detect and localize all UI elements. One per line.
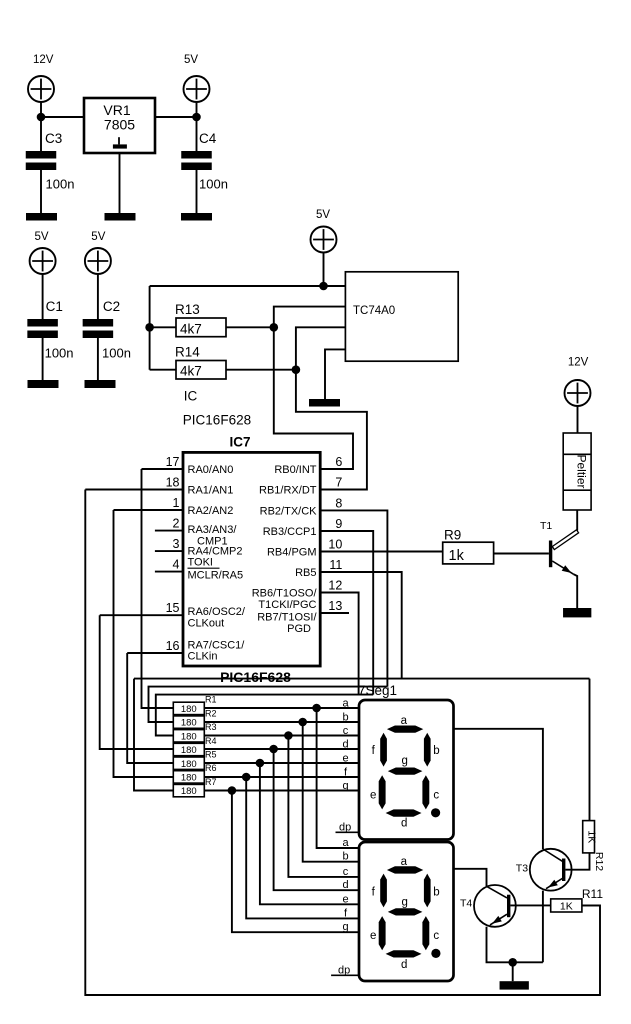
pin 10 wire RB4 to R9	[320, 551, 443, 553]
pin 4 stub	[155, 571, 183, 573]
wire T4 emitter down	[487, 927, 543, 963]
wire C1 to ground	[42, 338, 44, 380]
capacitor C4	[181, 151, 212, 159]
svg-text:1k: 1k	[449, 548, 465, 564]
svg-text:7Seg1: 7Seg1	[358, 683, 397, 698]
svg-text:15: 15	[166, 601, 180, 615]
wire TC74A0 pin4 to ground	[325, 349, 345, 399]
op-amp IC7 PIC16F628 body	[183, 452, 320, 666]
node junction 5V/VDD	[319, 282, 328, 291]
svg-text:8: 8	[335, 496, 342, 510]
pin 9 stub and wire RB3 to R3	[320, 531, 373, 695]
digit2 segments	[387, 866, 423, 873]
power symbol 5V C1	[30, 248, 56, 274]
svg-text:e: e	[370, 930, 376, 942]
wire T4 base to R11	[510, 904, 550, 906]
svg-text:RA2/AN2: RA2/AN2	[188, 505, 234, 517]
svg-text:RA3/AN3/: RA3/AN3/	[188, 524, 238, 536]
wire R-a to digit1 pin a	[204, 707, 359, 709]
svg-text:R1: R1	[205, 695, 217, 705]
svg-text:180: 180	[181, 718, 197, 729]
wire pullup bus vertical	[149, 286, 151, 370]
svg-text:g: g	[401, 896, 407, 908]
wire RA7 to R5	[127, 653, 173, 763]
pin 13 stub	[320, 612, 349, 614]
capacitor C1	[27, 319, 57, 327]
svg-text:b: b	[433, 887, 439, 899]
node junction emitter ground	[508, 958, 517, 967]
svg-text:RB2/TX/CK: RB2/TX/CK	[260, 505, 318, 517]
power symbol 5V C2	[85, 248, 111, 274]
svg-text:11: 11	[329, 558, 342, 572]
ground T3/T4	[500, 981, 529, 989]
pin 3 stub	[155, 550, 183, 552]
svg-text:180: 180	[181, 704, 197, 715]
svg-text:R13: R13	[175, 302, 200, 317]
svg-text:c: c	[433, 789, 439, 801]
ground C3	[26, 213, 57, 221]
svg-text:18: 18	[166, 476, 180, 490]
svg-text:RB3/CCP1: RB3/CCP1	[263, 526, 317, 538]
pin 8 stub and wire RB2 to R2	[320, 510, 387, 686]
pin 18 stub	[85, 489, 183, 491]
svg-text:R12: R12	[593, 852, 605, 871]
wire segment b to digit2	[303, 722, 359, 862]
svg-text:Peltier: Peltier	[574, 454, 588, 488]
node junction 5V/VR1/C4	[192, 113, 201, 122]
svg-text:d: d	[401, 818, 407, 830]
wire bus down to R7	[134, 679, 173, 791]
capacitor C2	[83, 319, 114, 327]
svg-text:g: g	[342, 921, 348, 933]
pin 15 stub	[100, 614, 183, 616]
svg-text:b: b	[342, 712, 348, 724]
svg-text:MCLR/RA5: MCLR/RA5	[188, 569, 244, 581]
svg-text:e: e	[342, 893, 348, 905]
svg-text:c: c	[343, 725, 349, 737]
svg-text:C1: C1	[46, 299, 63, 314]
svg-text:RA0/AN0: RA0/AN0	[188, 464, 234, 476]
wire SDA net to TC74A0 pin3	[296, 327, 346, 369]
node junction R13/R14 left	[145, 323, 154, 332]
svg-text:b: b	[342, 851, 348, 863]
node junction segment a	[312, 704, 321, 713]
svg-text:R3: R3	[205, 722, 217, 732]
node junction segment d	[269, 745, 278, 754]
wire segment a to digit2	[317, 708, 359, 848]
svg-text:R11: R11	[582, 887, 603, 901]
capacitor C3	[26, 151, 57, 159]
svg-text:4k7: 4k7	[180, 364, 202, 379]
wire C3 to ground	[40, 170, 42, 213]
wire long bus to R12	[134, 678, 590, 680]
display 7Seg1 digit1 body	[359, 700, 454, 840]
wire 5V symbol to C4	[196, 102, 198, 152]
wire 5V to C1	[42, 274, 44, 320]
wire Peltier to T1 collector	[576, 510, 578, 531]
wire R-b to digit1 pin b	[204, 721, 359, 723]
svg-text:b: b	[433, 745, 439, 757]
wire R9 to T1 base	[494, 553, 549, 555]
svg-text:R6: R6	[205, 763, 217, 773]
power symbol 5V TC74A0	[311, 227, 337, 253]
svg-text:TC74A0: TC74A0	[353, 305, 395, 317]
wire to R13 left	[150, 326, 176, 328]
svg-text:7805: 7805	[104, 116, 135, 132]
svg-text:PIC16F628: PIC16F628	[220, 669, 291, 685]
pin 12 stub	[320, 593, 358, 695]
svg-text:a: a	[342, 698, 349, 710]
wire 5V to VDD net	[323, 252, 325, 286]
wire R-f to digit1 pin f	[204, 776, 359, 778]
svg-text:PIC16F628: PIC16F628	[183, 413, 251, 428]
digit1 segments	[387, 726, 423, 733]
svg-text:d: d	[342, 739, 348, 751]
svg-text:100n: 100n	[46, 177, 75, 192]
ground C2	[85, 380, 116, 388]
svg-text:4k7: 4k7	[180, 322, 202, 337]
svg-text:5V: 5V	[184, 54, 198, 66]
wire SDA net down to PIC pin7	[296, 370, 367, 490]
wire T3 emitter down	[542, 891, 544, 963]
svg-text:4: 4	[173, 558, 180, 572]
svg-text:CLKout: CLKout	[188, 617, 225, 629]
wire junction to VR1 input	[41, 116, 84, 118]
pin dp stub digit2	[331, 974, 359, 976]
digit1 decimal point	[431, 808, 440, 817]
svg-text:a: a	[342, 837, 349, 849]
node junction R14/SDA	[292, 365, 301, 374]
svg-text:2: 2	[173, 517, 180, 531]
wire segment e to digit2	[260, 763, 359, 904]
svg-text:5V: 5V	[35, 231, 49, 243]
svg-text:1K: 1K	[560, 901, 573, 913]
svg-text:T1CKI/PGC: T1CKI/PGC	[258, 599, 316, 611]
display 7Seg1 digit2 body	[359, 842, 454, 981]
svg-text:13: 13	[328, 599, 342, 613]
wire segment f to digit2	[246, 777, 359, 918]
svg-text:d: d	[401, 959, 407, 971]
wire digit1 common to T3 collector	[454, 729, 543, 849]
svg-text:a: a	[401, 715, 408, 727]
wire R-g to digit1 pin g	[204, 790, 359, 792]
svg-text:5V: 5V	[91, 231, 105, 243]
svg-text:R5: R5	[205, 750, 217, 760]
svg-text:R4: R4	[205, 736, 217, 746]
wire R-c to digit1 pin c	[204, 735, 359, 737]
svg-text:RA6/OSC2/: RA6/OSC2/	[188, 606, 246, 618]
wire VR1 ground pin	[119, 153, 121, 213]
svg-text:100n: 100n	[45, 346, 74, 361]
node junction segment f	[242, 773, 251, 782]
svg-text:a: a	[401, 856, 408, 868]
wire segment c to digit2	[288, 736, 359, 877]
pin 17 stub	[142, 468, 184, 470]
svg-text:7: 7	[335, 476, 342, 490]
pin dp stub digit1	[336, 831, 360, 833]
wire 12V to C3	[40, 102, 42, 152]
wire VDD net to TC74A0 pin1	[150, 285, 346, 287]
ground T1	[563, 608, 591, 617]
wire junction to ground	[512, 962, 514, 981]
Peltier element	[563, 433, 591, 510]
svg-text:12V: 12V	[33, 54, 54, 66]
svg-text:C2: C2	[103, 299, 120, 314]
svg-text:T4: T4	[460, 898, 472, 910]
svg-text:RB5: RB5	[295, 567, 316, 579]
svg-text:17: 17	[166, 455, 180, 469]
svg-text:T1: T1	[540, 520, 552, 532]
wire 5V to C2	[97, 274, 99, 320]
power symbol 12V	[28, 76, 54, 102]
wire R13 right to junction	[226, 326, 274, 328]
ground TC74A0	[309, 399, 340, 407]
svg-text:10: 10	[328, 538, 342, 552]
wire RA2 to R6	[114, 510, 174, 777]
wire to R14 left	[150, 369, 176, 371]
node junction R13/SCL	[270, 323, 279, 332]
svg-text:R7: R7	[205, 777, 217, 787]
wire R12 to T3 base	[565, 853, 589, 870]
svg-text:RB1/RX/DT: RB1/RX/DT	[259, 485, 317, 497]
svg-text:5V: 5V	[316, 209, 330, 221]
svg-text:c: c	[433, 930, 439, 942]
svg-text:IC7: IC7	[229, 434, 250, 449]
svg-text:6: 6	[335, 455, 342, 469]
ground C4	[181, 213, 212, 221]
svg-text:R14: R14	[175, 345, 200, 360]
wire bus down to R12 top	[589, 679, 591, 821]
svg-text:R2: R2	[205, 708, 217, 718]
svg-text:CLKin: CLKin	[188, 651, 218, 663]
svg-text:100n: 100n	[102, 346, 131, 361]
svg-text:RB7/T1OSI/: RB7/T1OSI/	[257, 612, 317, 624]
svg-text:PGD: PGD	[287, 623, 311, 635]
node junction segment g	[228, 786, 237, 795]
wire digit2 common to T4 collector	[454, 869, 487, 887]
power symbol 5V	[184, 76, 210, 102]
node junction segment e	[256, 759, 265, 768]
pin 1 stub	[114, 509, 184, 511]
svg-text:9: 9	[335, 517, 342, 531]
svg-text:g: g	[342, 780, 348, 792]
svg-text:e: e	[342, 753, 348, 765]
svg-text:180: 180	[181, 759, 197, 770]
wire RA6 to R4	[100, 615, 174, 749]
wire C4 to ground	[196, 170, 198, 213]
wire R14 right to junction	[226, 369, 296, 371]
svg-text:180: 180	[181, 731, 197, 742]
digit2 decimal point	[431, 949, 440, 958]
wire SCL net to TC74A0 pin2	[274, 307, 346, 328]
svg-text:RB6/T1OSO/: RB6/T1OSO/	[252, 588, 318, 600]
wire SCL net down to PIC pin6	[274, 327, 353, 469]
temperature sensor TC74A0	[345, 272, 458, 361]
svg-text:e: e	[370, 789, 376, 801]
node junction 12V/VR1/C3	[37, 113, 46, 122]
svg-text:100n: 100n	[199, 177, 228, 192]
svg-text:RA1/AN1: RA1/AN1	[188, 485, 234, 497]
wire RA0 to R1	[142, 469, 174, 708]
svg-text:180: 180	[181, 745, 197, 756]
wire T1 emitter to ground	[574, 574, 578, 608]
svg-text:C4: C4	[199, 131, 217, 146]
svg-text:g: g	[401, 755, 407, 767]
svg-text:RB4/PGM: RB4/PGM	[267, 547, 317, 559]
svg-text:1K: 1K	[586, 830, 598, 843]
svg-text:12V: 12V	[568, 357, 589, 369]
wire 12V to Peltier	[577, 406, 579, 433]
wire VR1 output to 5V junction	[155, 116, 197, 118]
svg-text:IC: IC	[184, 389, 198, 404]
voltage regulator VR1 7805	[84, 98, 155, 153]
svg-text:16: 16	[166, 639, 180, 653]
svg-text:RA7/CSC1/: RA7/CSC1/	[188, 639, 246, 651]
node junction segment c	[284, 731, 293, 740]
wire R11 right to bottom bus	[582, 904, 600, 906]
svg-text:12: 12	[328, 579, 342, 593]
pin 16 stub	[127, 652, 183, 654]
ground C1	[28, 380, 59, 388]
svg-text:TOKI: TOKI	[188, 556, 213, 568]
power symbol 12V Peltier	[565, 380, 591, 406]
svg-text:RB0/INT: RB0/INT	[274, 464, 316, 476]
svg-text:c: c	[343, 866, 349, 878]
svg-text:C3: C3	[45, 131, 62, 146]
wire RA1 to R11 via bottom bus	[85, 490, 600, 996]
svg-text:d: d	[342, 879, 348, 891]
wire C2 to ground	[97, 338, 99, 380]
pin 11 stub and wire RB5 to segment bus	[320, 572, 402, 679]
wire segment d to digit2	[274, 749, 359, 890]
svg-text:180: 180	[181, 773, 197, 784]
svg-text:180: 180	[181, 786, 197, 797]
svg-text:1: 1	[173, 496, 180, 510]
node junction segment b	[298, 718, 307, 727]
svg-text:T3: T3	[516, 863, 528, 875]
wire segment g to digit2	[232, 791, 359, 933]
wire R-d to digit1 pin d	[204, 748, 359, 750]
ground VR1	[105, 213, 136, 221]
svg-text:R9: R9	[444, 528, 461, 543]
pin 2 stub	[155, 530, 183, 532]
wire R-e to digit1 pin e	[204, 762, 359, 764]
svg-text:3: 3	[173, 537, 180, 551]
